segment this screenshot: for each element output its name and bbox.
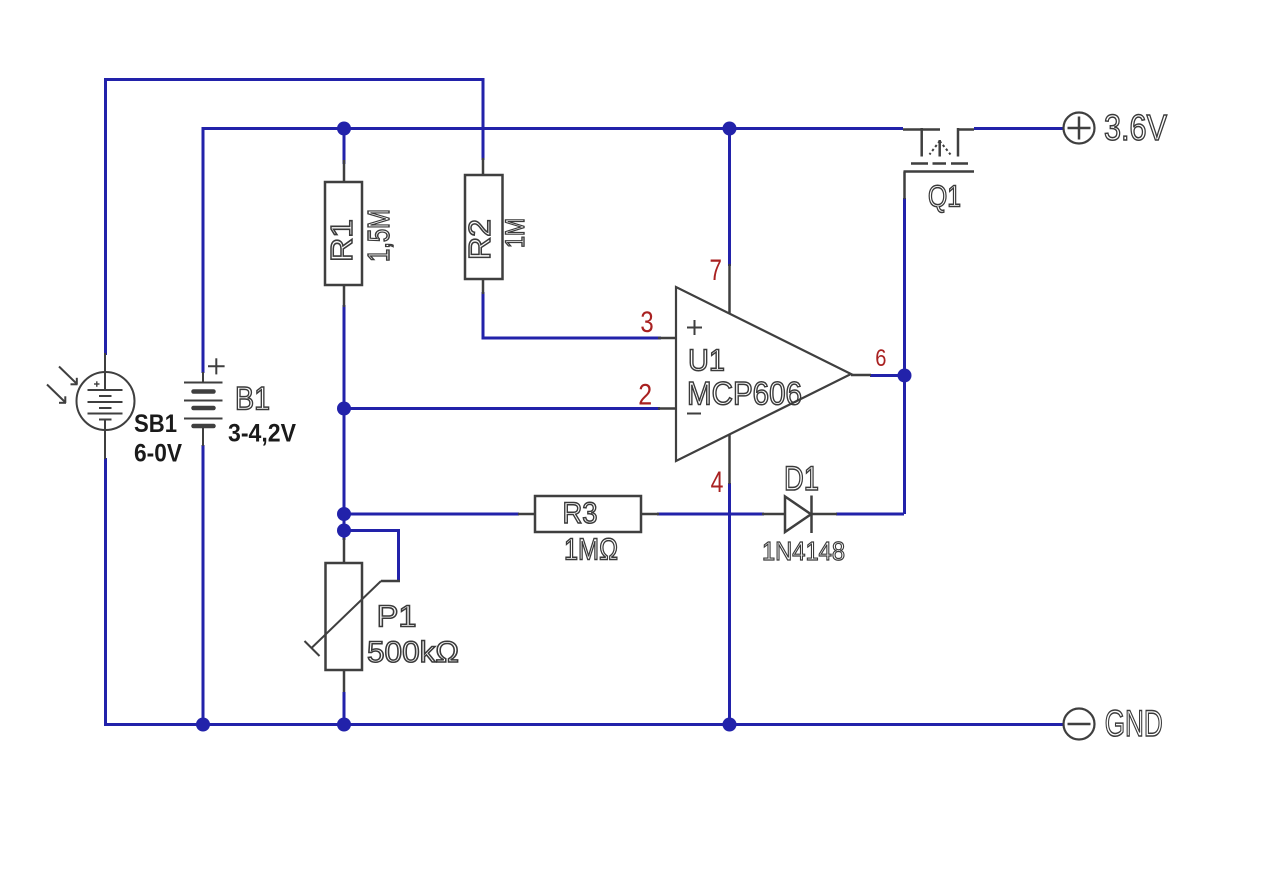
svg-text:MCP606: MCP606 xyxy=(687,376,802,412)
terminal +3.6V xyxy=(1064,113,1095,144)
wire R3 to D1 xyxy=(657,513,764,516)
resistor R3 xyxy=(518,496,659,532)
svg-text:U1: U1 xyxy=(688,343,725,378)
svg-text:R3: R3 xyxy=(563,497,598,530)
resistor R2 xyxy=(465,158,503,294)
svg-text:500kΩ: 500kΩ xyxy=(367,636,459,669)
terminal GND xyxy=(1064,709,1095,740)
node B1 gnd xyxy=(196,718,210,732)
wire top rail xyxy=(104,78,483,81)
svg-text:GND: GND xyxy=(1105,703,1163,744)
svg-text:4: 4 xyxy=(711,466,724,499)
svg-text:D1: D1 xyxy=(784,460,819,498)
node pin7 rail xyxy=(723,122,737,136)
svg-text:6-0V: 6-0V xyxy=(134,440,182,468)
svg-text:7: 7 xyxy=(710,254,722,287)
wire pin4 to gnd rail xyxy=(728,483,731,725)
wire output vertical xyxy=(903,198,906,514)
wire B1 top xyxy=(202,127,205,373)
node P1 gnd xyxy=(337,718,351,732)
svg-text:R1: R1 xyxy=(324,219,359,262)
trimmer P1 xyxy=(305,538,401,692)
wire wiper loop xyxy=(344,531,399,582)
svg-text:1M: 1M xyxy=(500,218,530,248)
wire R1 top xyxy=(343,127,346,164)
wire bottom rail xyxy=(104,723,1063,726)
svg-text:SB1: SB1 xyxy=(134,410,177,438)
wire D1 right xyxy=(836,513,904,516)
svg-text:3.6V: 3.6V xyxy=(1104,107,1167,148)
node R3 branch xyxy=(337,507,351,521)
resistor R1 xyxy=(325,160,362,307)
op-amp U1 xyxy=(658,264,871,484)
svg-text:1,5M: 1,5M xyxy=(361,209,396,262)
wire rail2 left of Q1 xyxy=(203,127,903,130)
svg-text:3: 3 xyxy=(640,306,653,339)
svg-text:1MΩ: 1MΩ xyxy=(564,532,618,567)
svg-text:Q1: Q1 xyxy=(928,179,961,214)
svg-text:P1: P1 xyxy=(377,599,417,634)
transistor Q1 xyxy=(903,128,974,199)
wire B1 bottom xyxy=(202,445,205,725)
wire rail2 right of Q1 to 3.6V xyxy=(974,127,1063,130)
wire output horizontal xyxy=(870,374,904,377)
node wiper branch xyxy=(337,524,351,538)
svg-text:2: 2 xyxy=(638,379,652,412)
svg-text:6: 6 xyxy=(875,345,886,372)
wire left vertical upper xyxy=(104,78,107,355)
wire pin7 xyxy=(728,127,731,266)
diode D1 xyxy=(762,496,837,534)
wire R1 bottom to P1 xyxy=(343,305,346,540)
light arrow 2 xyxy=(47,385,66,404)
svg-text:B1: B1 xyxy=(235,381,270,417)
svg-text:3-4,2V: 3-4,2V xyxy=(228,420,296,448)
wire left vertical lower xyxy=(104,458,107,725)
wire R3 left xyxy=(344,513,519,516)
svg-text:1N4148: 1N4148 xyxy=(762,536,845,566)
node pin2 R1 xyxy=(337,402,351,416)
wire pin3 from R2 xyxy=(483,292,661,338)
node output xyxy=(898,369,912,383)
solar cell SB1 xyxy=(77,353,135,459)
svg-text:R2: R2 xyxy=(462,219,497,260)
wire R2 top drop xyxy=(482,78,485,160)
light arrow 1 xyxy=(59,367,78,385)
battery B1 xyxy=(184,358,225,446)
wire P1 bottom xyxy=(343,692,346,725)
node pin4 gnd xyxy=(723,718,737,732)
wire pin2 from R1 xyxy=(344,407,660,410)
node R1 top xyxy=(337,122,351,136)
